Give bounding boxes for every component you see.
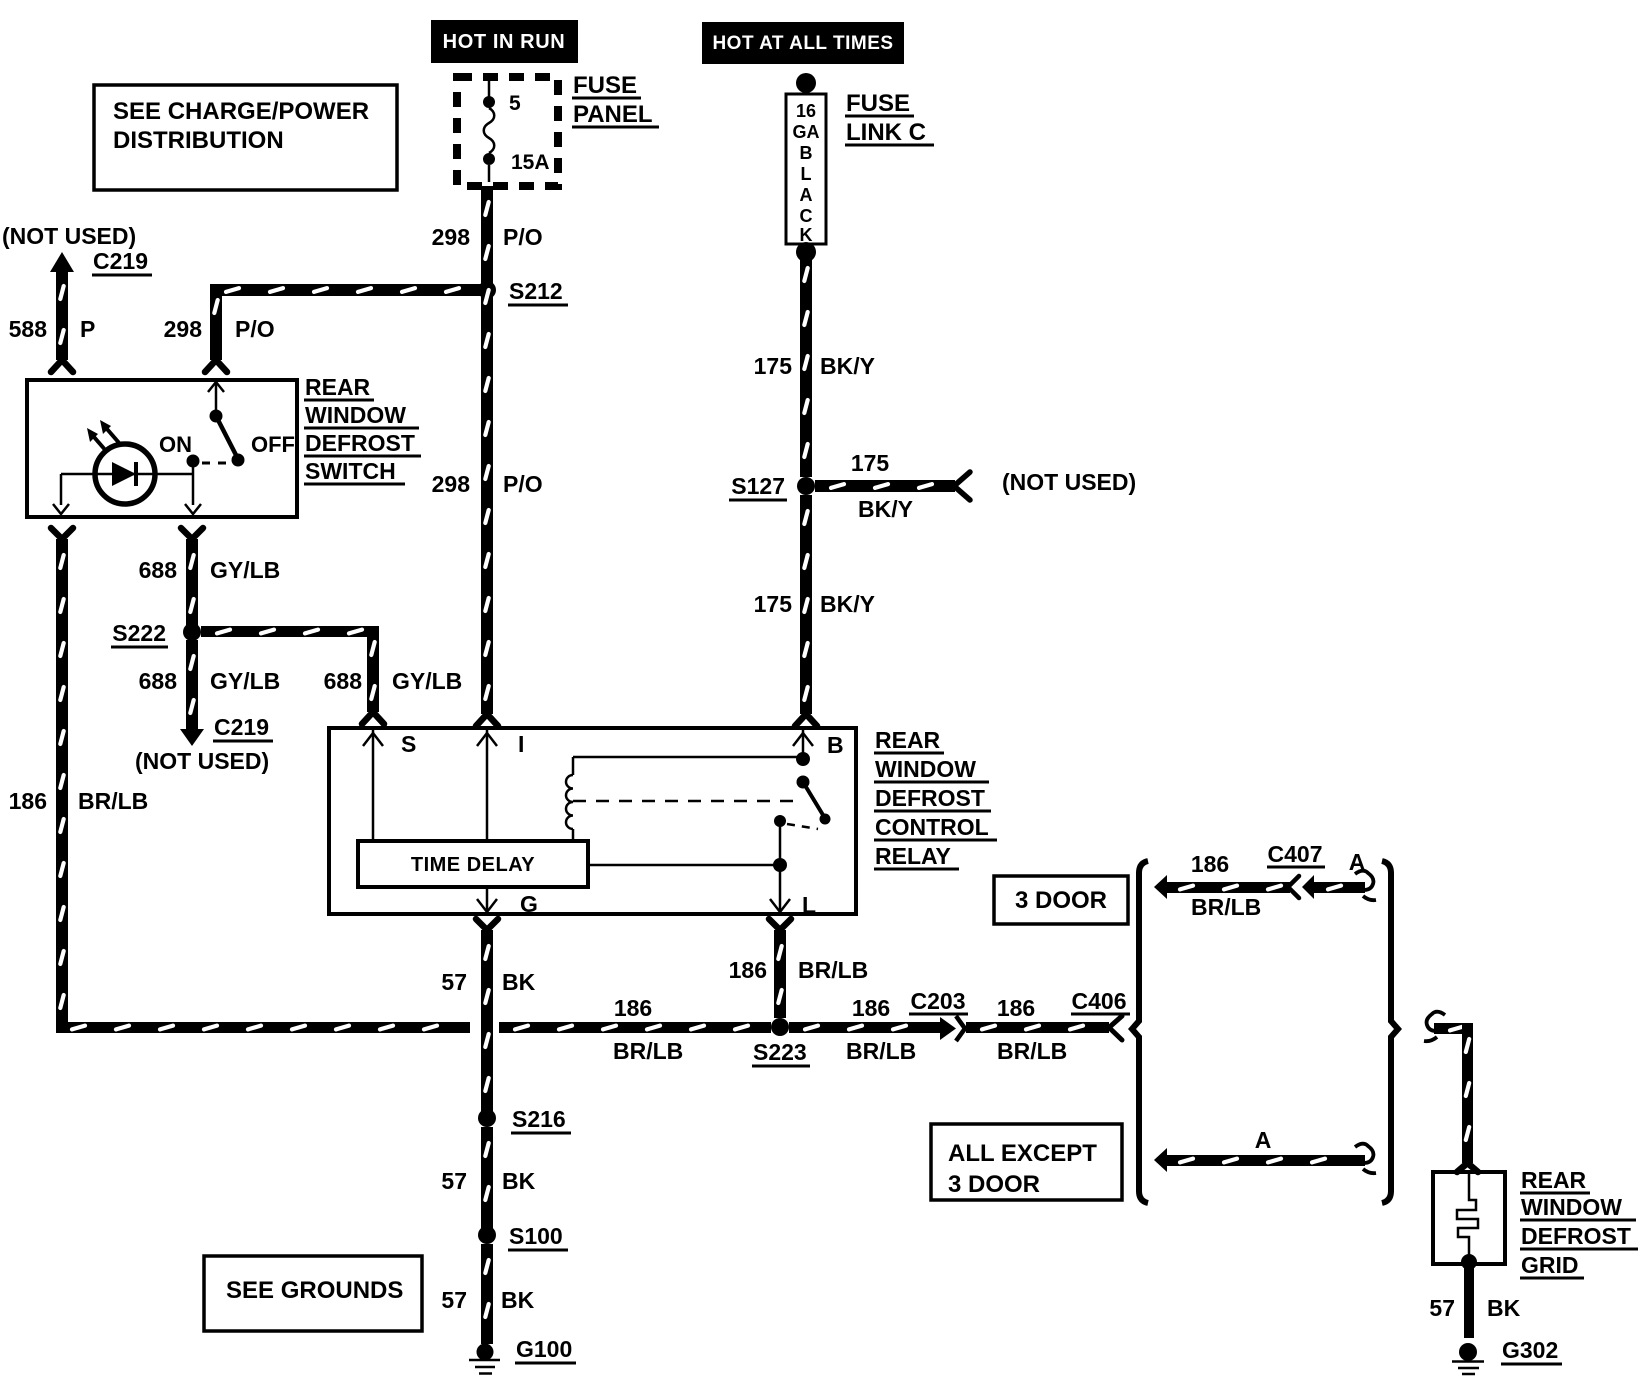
wire to rear window defrost grid — [1424, 1012, 1478, 1172]
fuse link C box 16 GA BLACK — [786, 94, 826, 245]
svg-text:B: B — [800, 143, 813, 163]
svg-text:ALL EXCEPT: ALL EXCEPT — [948, 1140, 1097, 1167]
wire 298 P/O main (fuse panel to relay I) — [432, 186, 543, 726]
svg-text:BK: BK — [502, 1168, 536, 1194]
svg-text:WINDOW: WINDOW — [875, 756, 976, 782]
svg-text:BR/LB: BR/LB — [846, 1038, 916, 1064]
wire 57 BK (grid to G302) — [1429, 1266, 1520, 1338]
note box SEE GROUNDS — [204, 1256, 422, 1331]
svg-text:186: 186 — [729, 957, 767, 983]
wire 688 GY/LB branch (S222 to relay S) — [201, 626, 462, 724]
splice S223 — [752, 1018, 810, 1066]
svg-text:57: 57 — [441, 1287, 467, 1313]
connector C219 upper (NOT USED) — [2, 223, 152, 275]
wire 186 BR/LB (crossing to S223) labels — [499, 995, 771, 1064]
ground G100 — [469, 1336, 576, 1374]
splice S222 — [111, 620, 201, 647]
wire 57 BK (S100 to G100) — [441, 1244, 534, 1344]
svg-text:BR/LB: BR/LB — [78, 788, 148, 814]
splice S216 — [478, 1106, 571, 1133]
fuse panel dashed box — [457, 77, 558, 186]
wire 57 BK (S216 to S100) — [441, 1127, 535, 1230]
svg-text:LINK C: LINK C — [846, 119, 926, 146]
svg-text:SEE GROUNDS: SEE GROUNDS — [226, 1277, 403, 1304]
svg-text:SEE CHARGE/POWER: SEE CHARGE/POWER — [113, 98, 369, 125]
wire 186 BR/LB (S223 to C203) — [789, 995, 940, 1064]
label REAR WINDOW DEFROST GRID — [1520, 1167, 1638, 1278]
LED ground leg arrow — [53, 474, 69, 514]
svg-text:REAR: REAR — [305, 374, 371, 400]
connector C407 — [1267, 841, 1325, 899]
svg-text:688: 688 — [139, 557, 178, 583]
switch arm and pivot — [202, 382, 245, 467]
svg-text:175: 175 — [851, 450, 890, 476]
svg-text:186: 186 — [1191, 851, 1229, 877]
svg-text:186: 186 — [997, 995, 1035, 1021]
svg-text:CONTROL: CONTROL — [875, 814, 989, 840]
node dot above fuse link C — [796, 73, 816, 93]
svg-text:P/O: P/O — [503, 224, 543, 250]
svg-text:BR/LB: BR/LB — [997, 1038, 1067, 1064]
svg-text:HOT AT ALL TIMES: HOT AT ALL TIMES — [712, 33, 893, 54]
right brace — [1382, 861, 1398, 1203]
hot in run header — [431, 20, 578, 63]
svg-text:175: 175 — [754, 591, 793, 617]
relay contact arm — [774, 776, 831, 830]
switch ON contact — [159, 432, 295, 514]
svg-text:P/O: P/O — [235, 316, 275, 342]
relay U1 rear window defrost control relay box — [329, 728, 856, 914]
relay pin S — [363, 730, 416, 841]
note box ALL EXCEPT 3 DOOR — [931, 1124, 1122, 1200]
svg-text:B: B — [827, 732, 844, 758]
svg-text:BK: BK — [501, 1287, 535, 1313]
svg-text:G100: G100 — [516, 1336, 572, 1362]
svg-text:BK/Y: BK/Y — [858, 496, 913, 522]
svg-text:A: A — [1349, 849, 1366, 875]
svg-text:GA: GA — [793, 122, 820, 142]
svg-text:298: 298 — [164, 316, 203, 342]
svg-text:S212: S212 — [509, 278, 563, 304]
wire 298 P/O branch (S212 to switch) — [164, 284, 481, 372]
svg-text:298: 298 — [432, 471, 471, 497]
svg-text:5: 5 — [509, 92, 521, 115]
svg-text:DEFROST: DEFROST — [875, 785, 985, 811]
relay coil — [566, 757, 803, 841]
svg-text:S127: S127 — [731, 473, 785, 499]
svg-text:OFF: OFF — [251, 432, 295, 457]
svg-text:G: G — [520, 891, 538, 917]
svg-text:WINDOW: WINDOW — [1521, 1194, 1622, 1220]
svg-text:3 DOOR: 3 DOOR — [948, 1171, 1040, 1198]
svg-text:15A: 15A — [511, 151, 550, 174]
svg-text:TIME DELAY: TIME DELAY — [411, 854, 535, 876]
svg-text:(NOT USED): (NOT USED) — [2, 223, 136, 249]
splice S100 — [478, 1223, 568, 1250]
node dot below fuse link C — [796, 242, 816, 262]
wire 186 BR/LB 3-door (arrow to C407) — [1154, 851, 1299, 920]
svg-text:SWITCH: SWITCH — [305, 458, 396, 484]
svg-text:A: A — [800, 185, 813, 205]
svg-text:I: I — [518, 731, 524, 757]
svg-text:REAR: REAR — [875, 727, 941, 753]
svg-text:C203: C203 — [911, 988, 966, 1014]
svg-text:186: 186 — [852, 995, 890, 1021]
svg-text:PANEL: PANEL — [573, 101, 653, 128]
svg-text:BR/LB: BR/LB — [1191, 894, 1261, 920]
splice S127 — [729, 473, 815, 500]
svg-text:BR/LB: BR/LB — [613, 1038, 683, 1064]
wire 175 BK/Y lower (S127 to relay B) — [754, 495, 875, 726]
svg-text:GY/LB: GY/LB — [210, 668, 280, 694]
svg-text:DEFROST: DEFROST — [305, 430, 415, 456]
svg-text:688: 688 — [324, 668, 363, 694]
svg-text:588: 588 — [9, 316, 48, 342]
relay dashed actuator line — [573, 800, 795, 803]
relay L contact branch — [588, 821, 816, 918]
connector C203 — [909, 988, 968, 1041]
wire A (C407 to brace) — [1312, 849, 1376, 900]
svg-text:688: 688 — [139, 668, 178, 694]
wire 688 GY/LB (switch to S222) — [139, 528, 281, 627]
wire 688 GY/LB (S222 to C219 NOT USED) — [139, 640, 281, 746]
svg-text:L: L — [802, 892, 816, 918]
rear window defrost switch box — [27, 380, 297, 517]
splice S212 — [478, 278, 568, 305]
svg-text:S223: S223 — [753, 1039, 807, 1065]
svg-text:57: 57 — [441, 969, 467, 995]
svg-text:186: 186 — [614, 995, 652, 1021]
svg-text:S216: S216 — [512, 1106, 566, 1132]
svg-text:L: L — [801, 164, 812, 184]
svg-text:C: C — [800, 206, 813, 226]
svg-text:S: S — [401, 731, 416, 757]
svg-text:57: 57 — [441, 1168, 467, 1194]
wire 186 BR/LB left (switch to splice S223 run) — [9, 528, 470, 1033]
svg-text:A: A — [1255, 1127, 1272, 1153]
relay pin G — [477, 887, 538, 917]
svg-text:RELAY: RELAY — [875, 843, 951, 869]
svg-text:3 DOOR: 3 DOOR — [1015, 887, 1107, 914]
label FUSE LINK C — [845, 90, 934, 146]
svg-text:C406: C406 — [1072, 988, 1127, 1014]
svg-text:298: 298 — [432, 224, 471, 250]
svg-text:GRID: GRID — [1521, 1252, 1579, 1278]
relay pin B — [793, 730, 844, 766]
svg-text:GY/LB: GY/LB — [210, 557, 280, 583]
svg-text:BK: BK — [1487, 1295, 1521, 1321]
svg-text:FUSE: FUSE — [573, 72, 637, 99]
svg-text:P/O: P/O — [503, 471, 543, 497]
svg-text:REAR: REAR — [1521, 1167, 1587, 1193]
svg-text:DISTRIBUTION: DISTRIBUTION — [113, 127, 284, 154]
svg-text:S222: S222 — [112, 620, 166, 646]
wire 175 BK/Y stub to (NOT USED) — [815, 450, 1136, 522]
svg-text:175: 175 — [754, 353, 793, 379]
time delay block — [358, 841, 588, 887]
svg-text:(NOT USED): (NOT USED) — [135, 748, 269, 774]
svg-text:C219: C219 — [93, 248, 148, 274]
label REAR WINDOW DEFROST CONTROL RELAY — [874, 727, 997, 869]
wire 186 BR/LB (relay L to S223) — [729, 919, 869, 1018]
connector C219 lower (NOT USED) — [135, 714, 273, 774]
svg-text:G302: G302 — [1502, 1337, 1558, 1363]
fuse F5 15A — [483, 77, 550, 182]
left brace — [1132, 861, 1148, 1203]
svg-text:FUSE: FUSE — [846, 90, 910, 117]
svg-text:C407: C407 — [1268, 841, 1323, 867]
svg-text:BR/LB: BR/LB — [798, 957, 868, 983]
note box 3 DOOR — [994, 876, 1128, 924]
svg-text:57: 57 — [1429, 1295, 1455, 1321]
svg-text:(NOT USED): (NOT USED) — [1002, 469, 1136, 495]
svg-text:WINDOW: WINDOW — [305, 402, 406, 428]
LED indicator lamp — [61, 420, 193, 504]
svg-text:GY/LB: GY/LB — [392, 668, 462, 694]
wire 175 BK/Y upper (fuse link to S127) — [754, 252, 875, 477]
wire 186 BR/LB (C203 to C406) — [966, 995, 1109, 1064]
svg-text:BK/Y: BK/Y — [820, 591, 875, 617]
hot at all times header — [702, 22, 904, 64]
wire A all-except (arrow to brace) — [1154, 1127, 1376, 1173]
ground G302 — [1452, 1337, 1562, 1374]
note box SEE CHARGE/POWER DISTRIBUTION — [94, 85, 397, 190]
svg-text:BK/Y: BK/Y — [820, 353, 875, 379]
svg-text:P: P — [80, 316, 95, 342]
svg-text:186: 186 — [9, 788, 47, 814]
svg-text:ON: ON — [159, 432, 192, 457]
svg-text:HOT IN RUN: HOT IN RUN — [443, 31, 566, 53]
wire 588 P to C219 — [9, 252, 96, 372]
relay pin I — [477, 730, 524, 841]
connector C406 — [1071, 988, 1130, 1040]
label FUSE PANEL — [572, 72, 659, 128]
rear window defrost grid box — [1433, 1172, 1505, 1270]
svg-text:S100: S100 — [509, 1223, 563, 1249]
svg-text:BK: BK — [502, 969, 536, 995]
svg-text:C219: C219 — [214, 714, 269, 740]
label REAR WINDOW DEFROST SWITCH — [304, 374, 421, 484]
svg-text:16: 16 — [796, 101, 816, 121]
svg-text:DEFROST: DEFROST — [1521, 1223, 1631, 1249]
wire 57 BK (relay G to S216) — [441, 919, 535, 1113]
